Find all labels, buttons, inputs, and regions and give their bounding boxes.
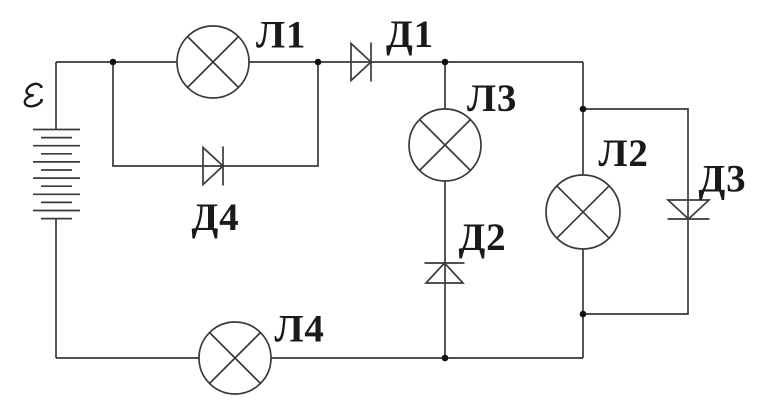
svg-text:Л1: Л1 xyxy=(256,14,306,57)
svg-text:Л4: Л4 xyxy=(275,307,325,350)
svg-text:Д4: Д4 xyxy=(192,196,240,239)
svg-text:Л2: Л2 xyxy=(599,132,649,175)
svg-text:Л3: Л3 xyxy=(467,77,517,120)
svg-text:Д2: Д2 xyxy=(459,216,507,259)
svg-text:Д1: Д1 xyxy=(386,13,434,56)
svg-text:Д3: Д3 xyxy=(699,158,747,201)
